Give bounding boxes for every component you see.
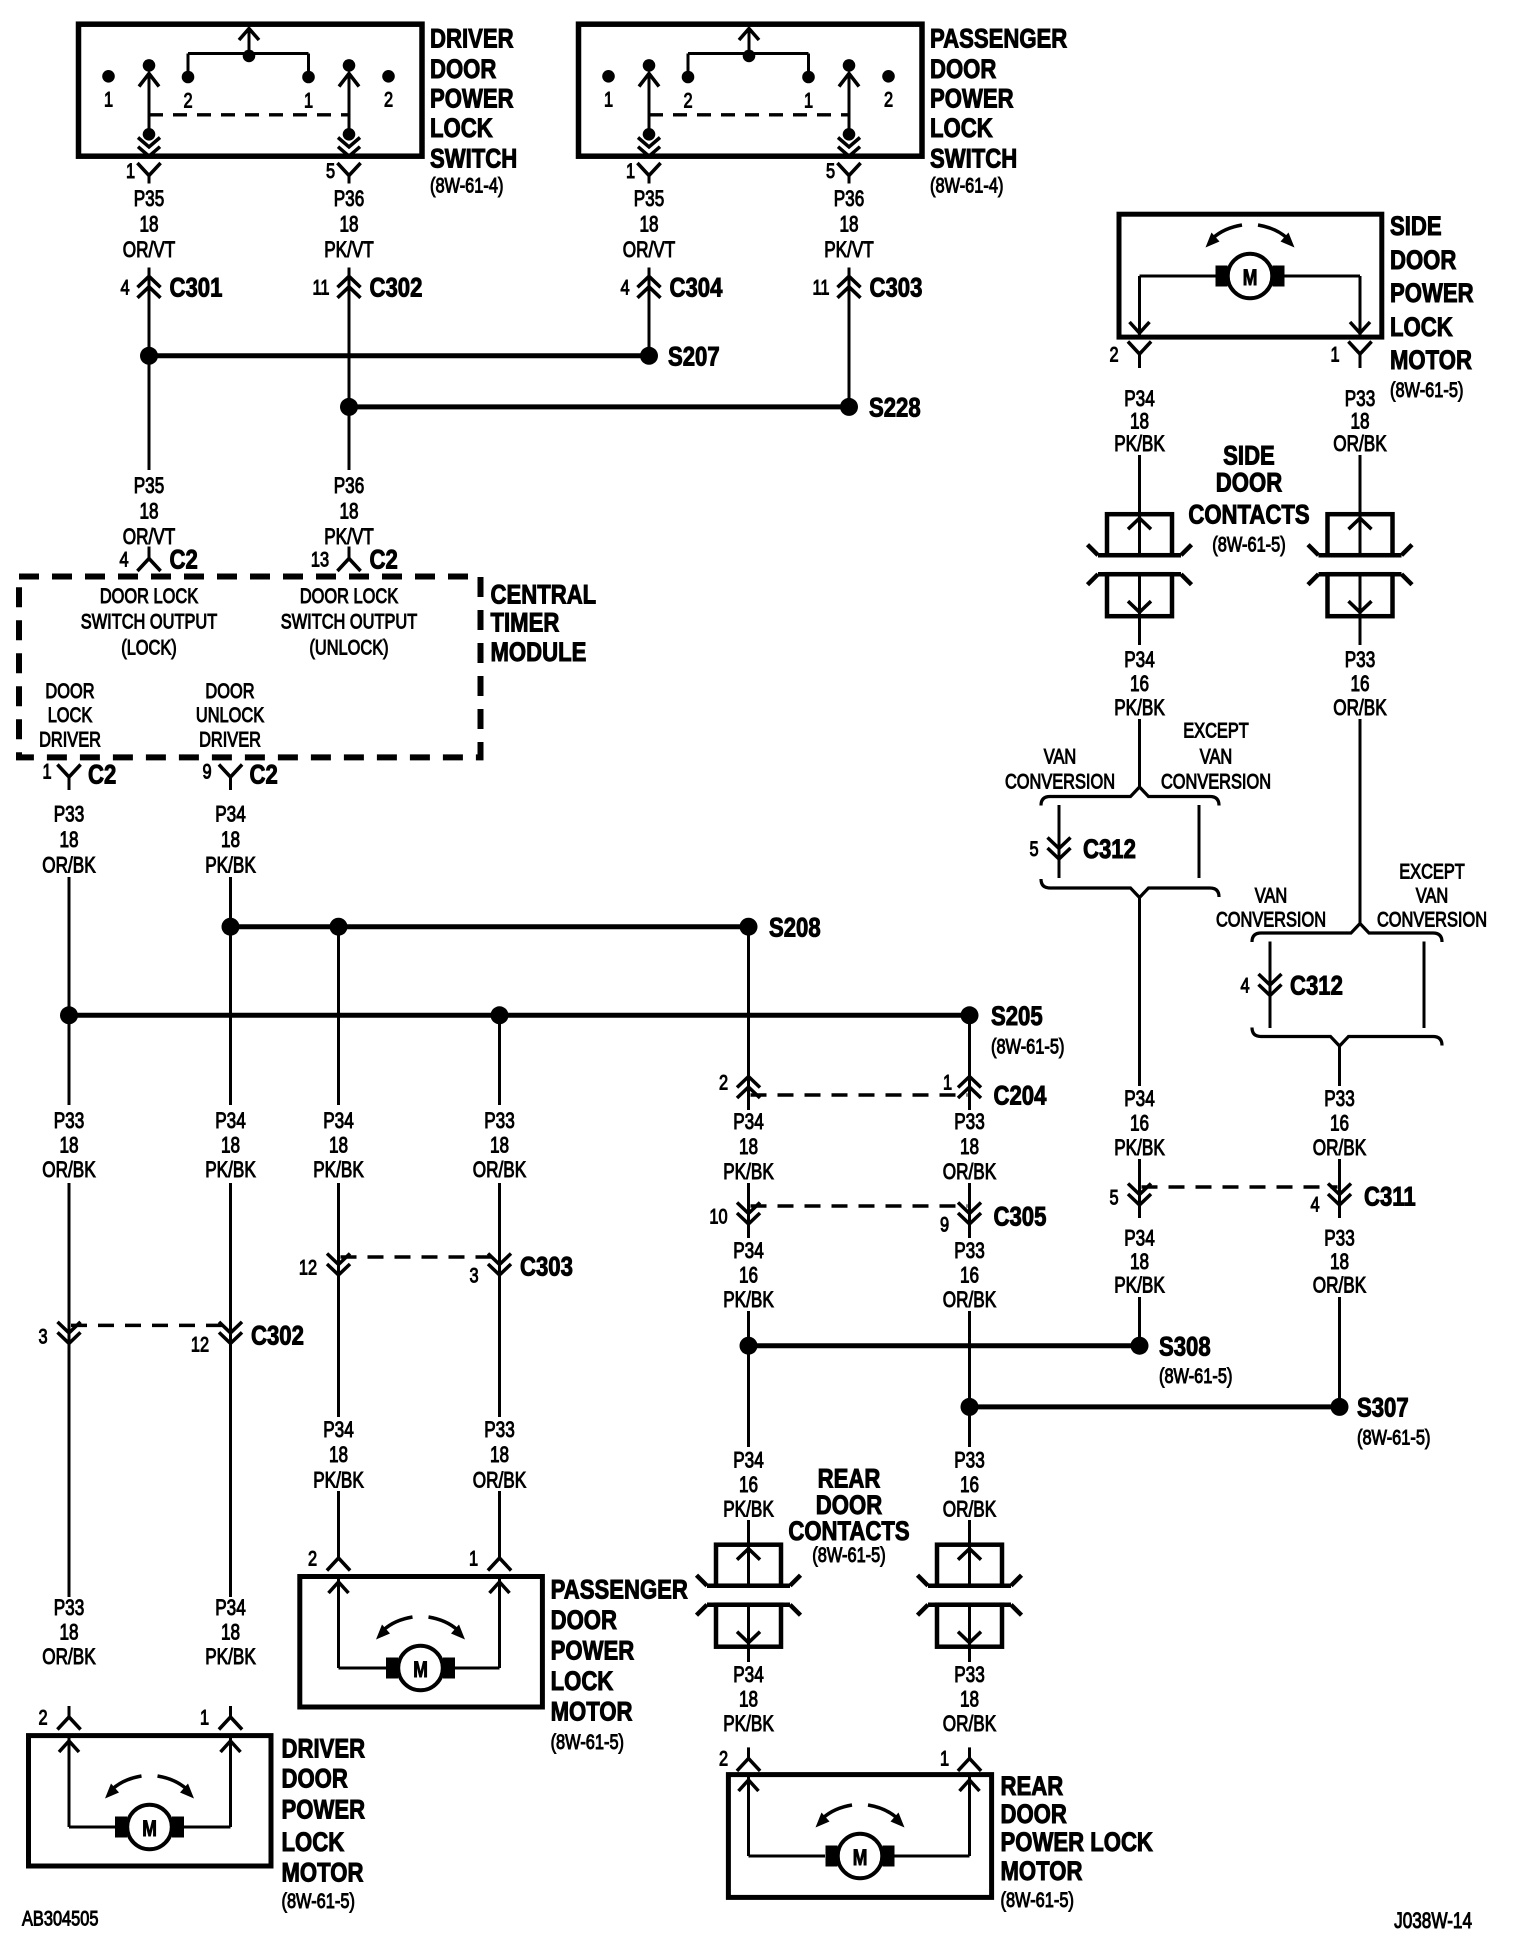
svg-text:SWITCH OUTPUT: SWITCH OUTPUT	[81, 610, 218, 633]
svg-text:2: 2	[308, 1547, 317, 1570]
svg-text:P35: P35	[134, 474, 165, 499]
svg-text:P35: P35	[134, 187, 165, 212]
svg-text:2: 2	[38, 1706, 47, 1729]
svg-text:C302: C302	[370, 274, 423, 304]
svg-text:5: 5	[326, 159, 335, 182]
side door contact (left)	[1088, 514, 1192, 616]
svg-text:18: 18	[59, 1133, 78, 1158]
svg-text:DOOR: DOOR	[282, 1765, 349, 1795]
svg-text:PK/BK: PK/BK	[205, 853, 256, 878]
svg-text:PK/BK: PK/BK	[205, 1158, 256, 1183]
svg-text:POWER: POWER	[930, 85, 1014, 115]
svg-text:DOOR LOCK: DOOR LOCK	[300, 584, 399, 607]
switch armatures	[138, 74, 360, 157]
svg-text:11: 11	[812, 275, 829, 298]
passenger motor pin 2 connector	[308, 1547, 350, 1571]
switch gang dashed link	[649, 113, 849, 116]
svg-text:P36: P36	[834, 187, 865, 212]
svg-text:18: 18	[639, 212, 658, 237]
connector C2 pin 4	[119, 546, 197, 576]
svg-text:P34: P34	[215, 802, 246, 827]
driver switch label	[430, 25, 517, 197]
driver motor pin 2 connector	[38, 1706, 80, 1730]
svg-text:PK/BK: PK/BK	[205, 1645, 256, 1670]
svg-text:OR/BK: OR/BK	[42, 1645, 95, 1670]
svg-text:M: M	[1243, 266, 1258, 291]
switch armatures	[638, 74, 860, 157]
wire label P33 18 OR/BK (col D)	[473, 1109, 526, 1183]
svg-text:18: 18	[490, 1443, 509, 1468]
svg-text:5: 5	[1109, 1186, 1118, 1209]
wire label P34 18 PK/BK (to driver motor)	[205, 1596, 256, 1670]
svg-text:CONTACTS: CONTACTS	[1188, 500, 1309, 530]
svg-text:4: 4	[1310, 1193, 1319, 1216]
switch contact pins	[102, 59, 395, 141]
wire C311 to S307	[1338, 1297, 1341, 1407]
wire into rear left contact	[747, 1520, 750, 1545]
svg-text:1: 1	[804, 89, 813, 112]
svg-text:PK/BK: PK/BK	[723, 1497, 774, 1522]
svg-text:CONVERSION: CONVERSION	[1005, 770, 1115, 793]
svg-text:OR/BK: OR/BK	[943, 1160, 996, 1185]
CTM pin function: door lock driver	[39, 679, 101, 751]
svg-text:P33: P33	[1324, 1087, 1355, 1112]
svg-text:S308: S308	[1159, 1332, 1211, 1362]
svg-text:18: 18	[839, 212, 858, 237]
svg-text:S205: S205	[991, 1002, 1043, 1032]
connector C304	[620, 268, 722, 356]
svg-text:C305: C305	[994, 1203, 1047, 1233]
svg-text:P34: P34	[733, 1239, 764, 1264]
svg-text:C2: C2	[170, 546, 198, 576]
wire C305 to S308	[747, 1311, 750, 1447]
connector C204	[719, 1071, 1047, 1112]
splice S207	[140, 343, 720, 373]
svg-text:P34: P34	[733, 1663, 764, 1688]
svg-text:(8W-61-5): (8W-61-5)	[1357, 1425, 1430, 1448]
rear door contacts label	[788, 1465, 909, 1567]
svg-text:PK/VT: PK/VT	[824, 238, 874, 263]
svg-text:P33: P33	[954, 1663, 985, 1688]
rear motor pin 1 connector	[940, 1747, 981, 1771]
svg-text:P33: P33	[484, 1418, 515, 1443]
svg-text:9: 9	[940, 1213, 949, 1236]
svg-text:(8W-61-5): (8W-61-5)	[1390, 378, 1463, 401]
svg-text:18: 18	[221, 1133, 240, 1158]
svg-text:4: 4	[120, 275, 129, 298]
wire label P33 18 OR/BK (to driver motor)	[42, 1596, 95, 1670]
svg-text:POWER LOCK: POWER LOCK	[1001, 1828, 1154, 1858]
connector C301	[120, 268, 222, 471]
svg-text:OR/BK: OR/BK	[1313, 1273, 1366, 1298]
svg-text:PK/BK: PK/BK	[723, 1712, 774, 1737]
wire label P33 16 OR/BK (rear right contact)	[943, 1448, 996, 1522]
wire label P33 18 OR/BK (col F)	[943, 1110, 996, 1185]
svg-text:VAN: VAN	[1200, 745, 1232, 768]
connector C303	[812, 268, 922, 407]
passenger door power lock motor M2 box	[300, 1577, 543, 1708]
wire into side left contact	[1138, 455, 1141, 514]
passenger motor internal wiring	[329, 1577, 510, 1669]
wire label P36 18 PK/VT (passenger unlock)	[824, 187, 874, 263]
wire into right C312 split	[1359, 719, 1362, 924]
svg-text:SIDE: SIDE	[1390, 212, 1442, 242]
CTM pin function: door unlock driver	[196, 679, 265, 751]
svg-text:DOOR: DOOR	[430, 55, 497, 85]
svg-text:MOTOR: MOTOR	[282, 1859, 364, 1889]
wire label P34 16 PK/BK (below left contact)	[1114, 617, 1165, 721]
wire label P33 18 OR/BK (C311 to S307)	[1313, 1226, 1366, 1298]
svg-text:OR/BK: OR/BK	[42, 1158, 95, 1183]
wire into left C312 split	[1138, 719, 1141, 787]
passenger door power lock switch SW2	[579, 24, 923, 156]
svg-text:13: 13	[311, 548, 329, 571]
svg-text:MODULE: MODULE	[491, 638, 587, 668]
svg-text:PASSENGER: PASSENGER	[551, 1575, 688, 1605]
wire label P33 16 OR/BK (below right contact)	[1333, 617, 1386, 721]
svg-text:VAN: VAN	[1416, 884, 1448, 907]
drawing number AB304505	[22, 1907, 99, 1930]
connector C305	[709, 1183, 1046, 1238]
switch pin 1 connector	[626, 159, 661, 183]
svg-text:CENTRAL: CENTRAL	[491, 581, 597, 611]
svg-text:S207: S207	[668, 343, 720, 373]
svg-text:POWER: POWER	[551, 1637, 635, 1667]
rear motor internal wiring	[739, 1775, 980, 1856]
svg-text:16: 16	[960, 1473, 979, 1498]
wire label P33 18 OR/BK (col A)	[42, 1109, 95, 1183]
wire label P35 18 OR/VT (driver lock)	[123, 187, 175, 263]
svg-text:18: 18	[739, 1687, 758, 1712]
wire C305 to S307	[968, 1311, 971, 1447]
wire label P33 18 OR/BK (to passenger motor)	[473, 1418, 526, 1493]
rear door power lock motor M3 box	[728, 1775, 991, 1898]
driver door power lock motor M1 box	[29, 1736, 272, 1866]
wire label P35 18 OR/VT (passenger lock)	[623, 187, 675, 263]
central timer module U1	[19, 577, 481, 758]
svg-text:16: 16	[739, 1473, 758, 1498]
svg-text:1: 1	[126, 159, 135, 182]
svg-text:C301: C301	[170, 274, 223, 304]
svg-text:P34: P34	[323, 1418, 354, 1443]
van conversion option labels (right)	[1216, 860, 1487, 931]
svg-text:16: 16	[1350, 672, 1369, 697]
svg-text:DOOR: DOOR	[205, 679, 254, 702]
svg-text:P34: P34	[1124, 1226, 1155, 1251]
svg-text:P34: P34	[1124, 1087, 1155, 1112]
wire label P33 18 OR/BK (lock driver)	[42, 802, 95, 878]
connector C302 (body)	[38, 1183, 303, 1597]
wire into side right contact	[1359, 455, 1362, 514]
svg-text:P34: P34	[1124, 387, 1155, 412]
wire to passenger motor pin1	[498, 1491, 501, 1547]
svg-text:MOTOR: MOTOR	[1001, 1857, 1083, 1887]
svg-text:OR/BK: OR/BK	[473, 1158, 526, 1183]
svg-text:1: 1	[200, 1706, 209, 1729]
connector C2 pin 9	[202, 760, 277, 791]
svg-text:M: M	[853, 1846, 868, 1871]
connector C303 (body)	[299, 1183, 573, 1417]
wire rear right contact to motor	[968, 1647, 971, 1662]
svg-text:SWITCH: SWITCH	[430, 144, 517, 174]
svg-text:5: 5	[1029, 837, 1038, 860]
svg-text:DOOR: DOOR	[930, 55, 997, 85]
svg-text:PASSENGER: PASSENGER	[930, 25, 1067, 55]
svg-text:REAR: REAR	[818, 1465, 881, 1495]
svg-text:1: 1	[626, 159, 635, 182]
wire P34 S208 branch	[337, 927, 340, 1105]
driver door power lock switch SW1	[79, 24, 423, 156]
switch common feed arrow and bridge	[688, 29, 809, 78]
svg-text:9: 9	[202, 760, 211, 783]
svg-text:POWER: POWER	[430, 85, 514, 115]
driver motor label	[282, 1735, 366, 1913]
wire P34 CTM through S208	[229, 877, 232, 1105]
svg-text:P33: P33	[954, 1239, 985, 1264]
svg-text:P33: P33	[1345, 648, 1376, 673]
svg-text:M: M	[413, 1658, 428, 1683]
svg-text:16: 16	[1330, 1111, 1349, 1136]
svg-text:18: 18	[1130, 1250, 1149, 1275]
svg-text:18: 18	[1130, 409, 1149, 434]
CTM label	[491, 581, 597, 668]
svg-text:LOCK: LOCK	[551, 1667, 614, 1697]
wire label P34 18 PK/BK (col B)	[205, 1109, 256, 1183]
svg-text:CONVERSION: CONVERSION	[1161, 770, 1271, 793]
svg-text:P33: P33	[1324, 1226, 1355, 1251]
connector C311	[1109, 1159, 1415, 1218]
svg-text:16: 16	[1130, 1111, 1149, 1136]
svg-text:P34: P34	[733, 1110, 764, 1135]
svg-text:DOOR LOCK: DOOR LOCK	[100, 584, 199, 607]
svg-text:DRIVER: DRIVER	[282, 1735, 366, 1765]
svg-text:PK/BK: PK/BK	[1114, 432, 1165, 457]
svg-text:VAN: VAN	[1044, 745, 1076, 768]
switch pin 5 connector	[326, 159, 361, 183]
svg-text:DRIVER: DRIVER	[199, 727, 261, 750]
wire label P33 18 OR/BK (rear motor pin1)	[943, 1663, 996, 1737]
svg-text:3: 3	[38, 1325, 47, 1348]
side motor internal wiring	[1130, 276, 1371, 337]
svg-text:C312: C312	[1290, 972, 1343, 1002]
svg-text:1: 1	[304, 89, 313, 112]
svg-text:1: 1	[1330, 343, 1339, 366]
svg-text:TIMER: TIMER	[491, 609, 560, 639]
svg-text:LOCK: LOCK	[282, 1828, 345, 1858]
svg-text:PK/VT: PK/VT	[324, 238, 374, 263]
svg-text:LOCK: LOCK	[930, 114, 993, 144]
side motor pin 2 connector	[1109, 342, 1151, 369]
switch box outline	[579, 24, 923, 156]
svg-text:C2: C2	[88, 761, 116, 791]
svg-text:3: 3	[469, 1264, 478, 1287]
svg-text:MOTOR: MOTOR	[551, 1698, 633, 1728]
svg-text:1: 1	[940, 1747, 949, 1770]
svg-text:18: 18	[59, 828, 78, 853]
rear motor label	[1001, 1772, 1154, 1912]
svg-text:P33: P33	[1345, 387, 1376, 412]
svg-text:PK/VT: PK/VT	[324, 525, 374, 550]
rear motor symbol	[816, 1805, 905, 1878]
svg-text:SWITCH OUTPUT: SWITCH OUTPUT	[281, 610, 418, 633]
svg-text:4: 4	[620, 275, 629, 298]
svg-text:18: 18	[1330, 1250, 1349, 1275]
wire label P34 18 PK/BK (to passenger motor)	[313, 1418, 364, 1493]
wire label P34 16 PK/BK (col E)	[723, 1239, 774, 1313]
svg-text:16: 16	[960, 1263, 979, 1288]
svg-text:P33: P33	[54, 1109, 85, 1134]
wire label P34 18 PK/BK (col E)	[723, 1110, 774, 1185]
svg-text:OR/VT: OR/VT	[123, 238, 175, 263]
svg-text:(8W-61-5): (8W-61-5)	[991, 1035, 1064, 1058]
svg-text:LOCK: LOCK	[48, 703, 93, 726]
connector C2 pin 13	[311, 546, 398, 576]
svg-text:M: M	[142, 1817, 157, 1842]
svg-text:PK/BK: PK/BK	[1114, 1273, 1165, 1298]
svg-text:C311: C311	[1364, 1183, 1416, 1213]
van conversion option labels (left)	[1005, 719, 1271, 793]
rear motor pin 2 connector	[719, 1747, 760, 1771]
wire S208 to C204	[747, 927, 750, 1110]
wire label P33 16 OR/BK (col F)	[943, 1239, 996, 1313]
svg-text:18: 18	[329, 1443, 348, 1468]
switch box outline	[79, 24, 423, 156]
svg-text:C204: C204	[994, 1082, 1047, 1112]
svg-text:18: 18	[960, 1135, 979, 1160]
svg-text:DRIVER: DRIVER	[39, 727, 101, 750]
svg-text:PK/BK: PK/BK	[313, 1158, 364, 1183]
side motor pin 1 connector	[1330, 342, 1371, 369]
svg-text:DRIVER: DRIVER	[430, 25, 514, 55]
connector C312 pin 4 (van conversion split)	[1240, 924, 1442, 1087]
wire label P33 18 OR/BK (side motor 1)	[1333, 387, 1386, 457]
driver motor internal wiring	[59, 1736, 241, 1827]
svg-text:2: 2	[1109, 343, 1118, 366]
svg-text:10: 10	[709, 1205, 727, 1228]
svg-text:2: 2	[719, 1071, 728, 1094]
svg-text:S307: S307	[1357, 1394, 1409, 1424]
svg-text:OR/VT: OR/VT	[123, 525, 175, 550]
svg-text:PK/BK: PK/BK	[723, 1160, 774, 1185]
svg-text:2: 2	[183, 89, 192, 112]
wire label P34 18 PK/BK (side motor 2)	[1114, 387, 1165, 457]
wire label P34 18 PK/BK (rear motor pin2)	[723, 1663, 774, 1737]
svg-text:CONVERSION: CONVERSION	[1377, 908, 1487, 931]
switch pin 1 connector	[126, 159, 161, 183]
svg-text:C2: C2	[250, 761, 278, 791]
switch contact pins	[602, 59, 895, 141]
wire P33 S205 branch	[498, 1015, 501, 1105]
drawing number J038W-14	[1394, 1909, 1472, 1934]
wire to passenger motor pin2	[337, 1491, 340, 1547]
svg-text:18: 18	[339, 212, 358, 237]
switch pin number labels 1 2 1 2	[104, 88, 393, 112]
svg-text:18: 18	[59, 1620, 78, 1645]
svg-text:EXCEPT: EXCEPT	[1399, 860, 1465, 883]
svg-text:VAN: VAN	[1255, 884, 1287, 907]
svg-text:P34: P34	[323, 1109, 354, 1134]
wire P33 CTM to S205	[68, 877, 71, 1105]
svg-text:DOOR: DOOR	[45, 679, 94, 702]
svg-text:OR/BK: OR/BK	[1333, 696, 1386, 721]
side door contact (right)	[1308, 514, 1412, 616]
svg-text:P33: P33	[484, 1109, 515, 1134]
svg-text:(8W-61-4): (8W-61-4)	[430, 174, 503, 197]
splice S308	[740, 1332, 1233, 1387]
svg-text:(8W-61-5): (8W-61-5)	[1001, 1888, 1074, 1911]
wire label P33 16 OR/BK (above C311)	[1313, 1087, 1366, 1161]
svg-text:DOOR: DOOR	[1216, 469, 1283, 499]
splice S228	[340, 394, 921, 424]
svg-text:12: 12	[299, 1256, 317, 1279]
connector C2 pin 1	[42, 760, 116, 791]
side door contacts label	[1188, 441, 1309, 556]
side motor label	[1390, 212, 1474, 401]
svg-text:1: 1	[943, 1071, 952, 1094]
svg-text:1: 1	[469, 1547, 478, 1570]
switch common feed arrow and bridge	[188, 29, 309, 78]
svg-text:18: 18	[221, 828, 240, 853]
passenger motor pin 1 connector	[469, 1547, 511, 1571]
svg-text:4: 4	[119, 548, 128, 571]
svg-text:1: 1	[104, 88, 113, 111]
svg-text:C312: C312	[1083, 835, 1136, 865]
switch pin 5 connector	[826, 159, 861, 183]
svg-text:DOOR: DOOR	[551, 1606, 618, 1636]
svg-text:P33: P33	[954, 1110, 985, 1135]
svg-text:DOOR: DOOR	[1390, 246, 1457, 276]
svg-text:(UNLOCK): (UNLOCK)	[309, 636, 388, 659]
switch pin number labels 1 2 1 2	[604, 88, 893, 112]
svg-text:P35: P35	[634, 187, 665, 212]
svg-text:UNLOCK: UNLOCK	[196, 703, 265, 726]
svg-text:P33: P33	[54, 1596, 85, 1621]
svg-text:11: 11	[312, 275, 329, 298]
svg-text:18: 18	[1350, 409, 1369, 434]
svg-text:EXCEPT: EXCEPT	[1183, 719, 1249, 742]
wire label P34 18 PK/BK (col C)	[313, 1109, 364, 1183]
svg-text:P34: P34	[733, 1448, 764, 1473]
svg-text:(8W-61-5): (8W-61-5)	[551, 1730, 624, 1753]
splice S205	[60, 1002, 1064, 1058]
svg-text:C302: C302	[251, 1322, 304, 1352]
svg-text:POWER: POWER	[1390, 279, 1474, 309]
rear door contact (right)	[918, 1545, 1022, 1647]
svg-text:J038W-14: J038W-14	[1394, 1909, 1472, 1934]
side motor symbol	[1206, 225, 1295, 298]
splice S307	[961, 1394, 1431, 1449]
wire S205 to C204	[968, 1015, 971, 1110]
svg-text:18: 18	[221, 1620, 240, 1645]
svg-text:P33: P33	[54, 802, 85, 827]
svg-text:5: 5	[826, 159, 835, 182]
svg-text:OR/VT: OR/VT	[623, 238, 675, 263]
side door power lock motor M4 box	[1119, 214, 1382, 337]
CTM pin function: door lock switch output (unlock)	[281, 584, 418, 659]
wire label P34 16 PK/BK (above C311)	[1114, 1087, 1165, 1161]
svg-text:(8W-61-5): (8W-61-5)	[812, 1543, 885, 1566]
svg-text:(8W-61-4): (8W-61-4)	[930, 174, 1003, 197]
wire label P36 18 PK/VT (to CTM)	[324, 474, 374, 550]
svg-text:1: 1	[42, 760, 51, 783]
svg-text:(8W-61-5): (8W-61-5)	[1159, 1364, 1232, 1387]
svg-text:P33: P33	[954, 1448, 985, 1473]
svg-text:(8W-61-5): (8W-61-5)	[282, 1889, 355, 1912]
svg-text:2: 2	[384, 88, 393, 111]
svg-text:SIDE: SIDE	[1223, 441, 1275, 471]
svg-text:PK/BK: PK/BK	[1114, 696, 1165, 721]
svg-text:REAR: REAR	[1001, 1772, 1064, 1802]
